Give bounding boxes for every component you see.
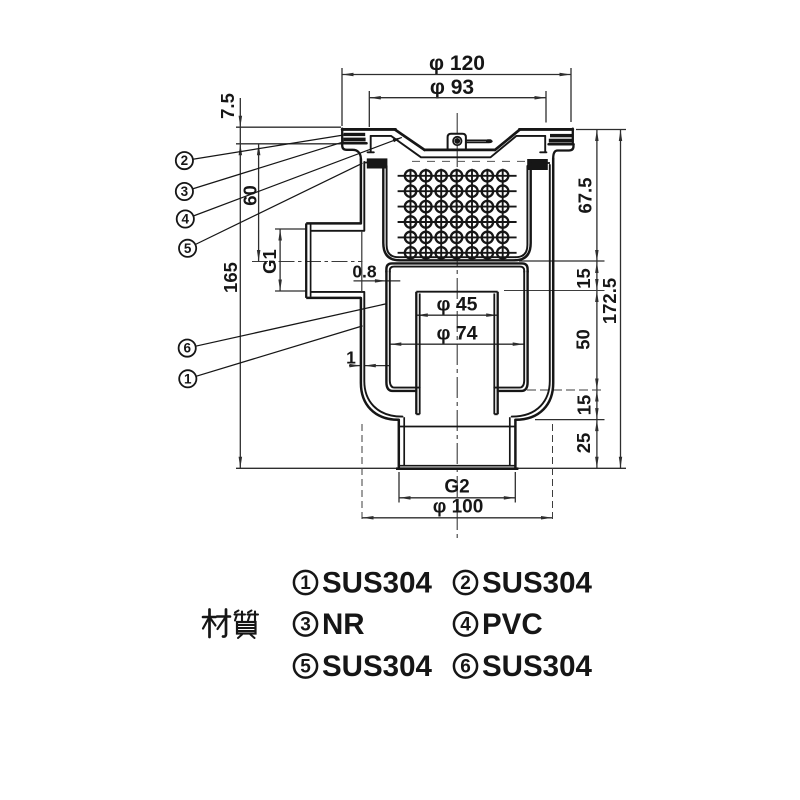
extension line phi100 right bbox=[552, 424, 554, 523]
perforation hole r5c2 bbox=[420, 232, 431, 243]
balloon 2 leader line bbox=[193, 135, 346, 160]
perforation hole r1c4 bbox=[451, 170, 462, 181]
perforation hole r4c2 bbox=[420, 216, 431, 227]
dimension 60 line bbox=[258, 144, 260, 262]
perforation row line 5 bbox=[398, 236, 517, 238]
perforation hole r6c6 bbox=[482, 247, 493, 258]
svg-text:φ 74: φ 74 bbox=[436, 323, 477, 345]
perforation row line 1 bbox=[398, 175, 517, 177]
svg-text:25: 25 bbox=[573, 433, 594, 454]
svg-text:15: 15 bbox=[574, 395, 595, 416]
lid top slope left bbox=[395, 130, 425, 150]
svg-text:4: 4 bbox=[182, 212, 190, 227]
body flange top line right bbox=[549, 143, 574, 146]
perforation column line 4 bbox=[456, 169, 458, 260]
perforation hole r2c5 bbox=[466, 186, 477, 197]
perforation hole r3c2 bbox=[420, 201, 431, 212]
lid top surface left rim bbox=[342, 128, 395, 131]
extension line G2 left bbox=[398, 472, 400, 503]
svg-text:15: 15 bbox=[573, 268, 594, 289]
material table heading kanji 材質 bbox=[203, 616, 216, 619]
extension line lid top right bbox=[576, 129, 626, 131]
extension line basket bottom right bbox=[519, 260, 605, 262]
dimension phi120 line bbox=[342, 74, 571, 76]
perforation hole r3c5 bbox=[466, 201, 477, 212]
basket left wall bbox=[383, 162, 399, 260]
perforation row line 6 bbox=[398, 252, 517, 254]
svg-text:165: 165 bbox=[220, 262, 241, 293]
material row item 2 bbox=[454, 571, 477, 594]
socket bottom wall bbox=[306, 297, 361, 300]
svg-text:G2: G2 bbox=[444, 477, 469, 498]
standpipe top edge bbox=[416, 291, 497, 293]
perforation hole r5c4 bbox=[451, 232, 462, 243]
perforation hole r3c4 bbox=[451, 201, 462, 212]
perforation hole r5c3 bbox=[436, 232, 447, 243]
svg-text:50: 50 bbox=[573, 329, 594, 350]
body right wall and bowl bbox=[515, 159, 553, 420]
perforation hole r1c6 bbox=[482, 170, 493, 181]
svg-text:SUS304: SUS304 bbox=[322, 650, 432, 683]
perforation hole r2c1 bbox=[405, 186, 416, 197]
cup left wall bbox=[386, 271, 416, 391]
extension line phi120 right bbox=[570, 68, 572, 122]
side inlet socket centerline bbox=[252, 261, 363, 263]
perforation hole r4c3 bbox=[436, 216, 447, 227]
perforation hole r6c4 bbox=[451, 247, 462, 258]
svg-text:6: 6 bbox=[460, 657, 471, 678]
extension line body bottom right bbox=[535, 419, 605, 421]
svg-text:0.8: 0.8 bbox=[352, 262, 377, 282]
perforation hole r3c1 bbox=[405, 201, 416, 212]
dimension line 172.5 vertical bbox=[620, 130, 622, 469]
svg-text:PVC: PVC bbox=[482, 608, 543, 641]
lid top surface right rim bbox=[519, 128, 572, 131]
dimension phi93 line bbox=[369, 97, 546, 99]
svg-text:φ 45: φ 45 bbox=[436, 294, 477, 316]
balloon 6 callout circle bbox=[179, 340, 196, 357]
perforation hole r6c7 bbox=[497, 247, 508, 258]
material row item 5 bbox=[294, 654, 317, 677]
material row item 6 bbox=[454, 654, 477, 677]
lid deck top surface bbox=[425, 149, 496, 152]
basket rim far edge line bbox=[412, 160, 526, 162]
material row item 3 bbox=[294, 612, 317, 635]
cover ring (part 2) outer skirt left bbox=[341, 129, 343, 142]
extension line phi100 left bbox=[361, 424, 363, 523]
outlet pipe right wall bbox=[514, 420, 517, 469]
perforation hole r6c1 bbox=[405, 247, 416, 258]
extension line phi120 left bbox=[341, 68, 343, 126]
perforation hole r2c6 bbox=[482, 186, 493, 197]
material row item 1 bbox=[294, 571, 317, 594]
extension line pipe end bottom (shared 165/172.5/25) bbox=[236, 467, 626, 469]
perforation column line 7 bbox=[502, 169, 504, 260]
extension line G1 top bbox=[275, 228, 306, 230]
svg-text:4: 4 bbox=[460, 615, 471, 636]
standpipe left wall bbox=[415, 292, 417, 415]
perforation hole r2c2 bbox=[420, 186, 431, 197]
svg-text:φ 93: φ 93 bbox=[430, 76, 474, 99]
perforation hole r4c5 bbox=[466, 216, 477, 227]
material row item 4 bbox=[454, 612, 477, 635]
basket bottom bbox=[400, 259, 515, 261]
balloon 3 callout circle bbox=[176, 183, 193, 200]
dimension phi74 line bbox=[390, 343, 524, 345]
balloon 3 leader line bbox=[193, 142, 344, 189]
outlet pipe left wall bbox=[398, 420, 401, 469]
handle pivot pin center bbox=[455, 139, 460, 144]
extension line standpipe top right bbox=[504, 290, 605, 292]
perforation hole r3c7 bbox=[497, 201, 508, 212]
extension line G2 right bbox=[514, 472, 516, 503]
perforation column line 1 bbox=[410, 169, 412, 260]
balloon 4 callout circle bbox=[177, 210, 194, 227]
dimension 0.8 leader bbox=[354, 280, 401, 282]
svg-text:172.5: 172.5 bbox=[599, 278, 620, 324]
body flange lip and fillet left bbox=[342, 143, 361, 159]
svg-text:φ 120: φ 120 bbox=[429, 52, 485, 75]
cup rim top edge bbox=[386, 263, 527, 272]
standpipe bottom end caps bbox=[416, 413, 419, 415]
cover ring outer skirt right bbox=[572, 129, 574, 143]
dimension G2 line bbox=[399, 497, 515, 499]
balloon 1 callout circle bbox=[179, 370, 196, 387]
outlet pipe thread shoulder line bbox=[399, 426, 515, 428]
perforation hole r1c1 bbox=[405, 170, 416, 181]
perforation hole r2c3 bbox=[436, 186, 447, 197]
extension line phi93 left bbox=[368, 91, 370, 127]
svg-text:SUS304: SUS304 bbox=[482, 567, 592, 600]
perforation hole r5c6 bbox=[482, 232, 493, 243]
perforation hole r4c7 bbox=[497, 216, 508, 227]
svg-text:SUS304: SUS304 bbox=[482, 650, 592, 683]
basket rim hook right (dark) bbox=[527, 159, 548, 170]
lid underside bbox=[371, 136, 546, 157]
extension line G1 bottom bbox=[275, 290, 306, 292]
extension line flange seat level bbox=[236, 143, 341, 145]
perforation row line 2 bbox=[398, 190, 517, 192]
extension line cup bottom right bbox=[527, 389, 605, 391]
perforation hole r6c5 bbox=[466, 247, 477, 258]
gasket (part 3) bar right bbox=[549, 139, 573, 143]
cup right wall bbox=[498, 271, 528, 391]
lid inner skirt left bbox=[370, 136, 372, 152]
perforation hole r4c1 bbox=[405, 216, 416, 227]
perforation hole r5c1 bbox=[405, 232, 416, 243]
body flange lip and fillet right bbox=[553, 144, 573, 158]
gasket (part 3) bar left bbox=[343, 138, 365, 142]
extension line lid top level bbox=[236, 126, 341, 128]
body left wall above socket bbox=[360, 159, 363, 223]
dimension phi100 line bbox=[362, 517, 553, 519]
svg-text:67.5: 67.5 bbox=[575, 177, 596, 213]
lid top slope right bbox=[495, 130, 520, 150]
body left wall below socket and bowl bbox=[361, 298, 399, 420]
body step line right bbox=[528, 162, 550, 164]
svg-text:60: 60 bbox=[240, 185, 261, 206]
perforation column line 2 bbox=[425, 169, 427, 260]
svg-text:SUS304: SUS304 bbox=[322, 567, 432, 600]
outlet pipe bottom end bbox=[398, 465, 516, 467]
svg-text:3: 3 bbox=[181, 184, 189, 199]
handle pivot pin bbox=[453, 137, 461, 145]
balloon 2 callout circle bbox=[176, 152, 193, 169]
handle bracket bbox=[448, 134, 466, 149]
perforation hole r5c7 bbox=[497, 232, 508, 243]
perforation column line 6 bbox=[486, 169, 488, 260]
dimension 1 arrows bbox=[349, 365, 361, 367]
perforation row line 3 bbox=[398, 206, 517, 208]
svg-text:1: 1 bbox=[300, 573, 311, 594]
basket right wall bbox=[515, 163, 531, 260]
svg-text:3: 3 bbox=[300, 615, 311, 636]
svg-text:7.5: 7.5 bbox=[217, 93, 238, 119]
body step line left bbox=[365, 162, 388, 164]
perforation hole r6c2 bbox=[420, 247, 431, 258]
perforation column line 3 bbox=[440, 169, 442, 260]
perforation hole r5c5 bbox=[466, 232, 477, 243]
perforation hole r1c3 bbox=[436, 170, 447, 181]
svg-text:5: 5 bbox=[300, 657, 311, 678]
perforation column line 5 bbox=[471, 169, 473, 260]
perforation hole r2c7 bbox=[497, 186, 508, 197]
vertical centerline of strainer bbox=[456, 113, 458, 540]
perforation row line 4 bbox=[398, 221, 517, 223]
lid inner skirt right bbox=[544, 136, 546, 152]
cover ring rolled edge bar right upper bbox=[550, 134, 572, 137]
cover ring rolled edge bar left upper bbox=[344, 133, 366, 136]
dimension line right chain (67.5/15/50/15/25) bbox=[596, 130, 598, 469]
extension line phi93 right bbox=[545, 91, 547, 123]
perforation hole r1c7 bbox=[497, 170, 508, 181]
dimension phi45 line bbox=[416, 314, 497, 316]
basket rim hook left (dark) bbox=[367, 158, 388, 168]
svg-text:6: 6 bbox=[183, 341, 191, 356]
socket bore end line bbox=[361, 231, 363, 292]
perforation hole r1c2 bbox=[420, 170, 431, 181]
svg-text:2: 2 bbox=[181, 153, 189, 168]
perforation hole r2c4 bbox=[451, 186, 462, 197]
svg-text:2: 2 bbox=[460, 573, 471, 594]
dimension G1 line bbox=[279, 229, 281, 291]
dimension line 7.5/165 vertical bbox=[239, 98, 241, 468]
balloon 4 leader line bbox=[193, 137, 401, 216]
handle wire folded flat bbox=[466, 140, 492, 142]
svg-text:G1: G1 bbox=[259, 249, 280, 274]
perforation hole r6c3 bbox=[436, 247, 447, 258]
socket end face bbox=[305, 223, 307, 298]
svg-text:5: 5 bbox=[184, 241, 192, 256]
balloon 5 callout circle bbox=[179, 240, 196, 257]
body flange top line left bbox=[342, 142, 366, 145]
perforation hole r3c3 bbox=[436, 201, 447, 212]
svg-text:φ 100: φ 100 bbox=[433, 497, 484, 518]
perforation hole r4c4 bbox=[451, 216, 462, 227]
standpipe right wall bbox=[497, 292, 499, 415]
perforation hole r3c6 bbox=[482, 201, 493, 212]
svg-text:1: 1 bbox=[184, 371, 192, 386]
perforation hole r1c5 bbox=[466, 170, 477, 181]
svg-text:NR: NR bbox=[322, 608, 365, 641]
socket top wall bbox=[306, 222, 361, 225]
balloon 6 leader line bbox=[196, 304, 387, 347]
balloon 5 leader line bbox=[195, 163, 362, 244]
perforation hole r4c6 bbox=[482, 216, 493, 227]
balloon 1 leader line bbox=[196, 326, 363, 376]
